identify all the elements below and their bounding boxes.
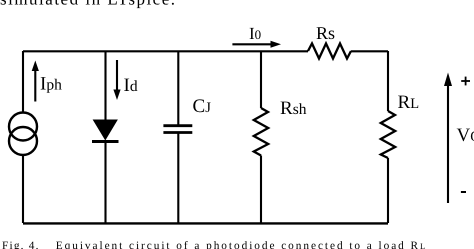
wire: top rail left segment (node A to Rs)	[23, 50, 308, 52]
label Rs	[316, 23, 335, 43]
resistor Rs (horizontal zigzag in top rail)	[308, 44, 351, 59]
label Rsh	[280, 98, 307, 119]
label Iph	[40, 74, 62, 95]
wire: Rsh branch above	[260, 51, 262, 108]
wire: diode branch above	[104, 51, 106, 121]
svg-text:Equivalent circuit of a photod: Equivalent circuit of a photodiode conne…	[56, 240, 427, 249]
svg-text:Id: Id	[124, 75, 138, 96]
label + (positive terminal)	[461, 77, 470, 86]
wire: bottom rail	[23, 222, 388, 224]
arrow: Id current direction (down)	[113, 60, 120, 100]
wire: top rail right segment (Rs to RL corner)	[351, 50, 388, 52]
svg-text:simulated in LTspice.: simulated in LTspice.	[0, 0, 177, 8]
svg-text:I0: I0	[249, 24, 261, 43]
resistor Rsh (vertical zigzag)	[254, 108, 268, 156]
text: paragraph fragment "simulated in LTspice."	[0, 0, 177, 8]
svg-text:RL: RL	[398, 92, 420, 113]
wire: diode branch below	[104, 142, 106, 224]
current source Iph symbol (two overlapping circles)	[9, 113, 37, 156]
arrow: I0 current direction (right, above top rail)	[232, 41, 281, 48]
svg-text:Rs: Rs	[316, 23, 335, 43]
wire: Rsh branch below	[260, 156, 262, 224]
svg-text:VO: VO	[457, 125, 474, 146]
wire: capacitor branch above	[177, 51, 179, 126]
wire: RL branch above	[387, 51, 389, 111]
label CJ	[193, 96, 212, 117]
text: figure caption	[2, 240, 427, 249]
label V0	[457, 125, 474, 146]
arrow: V0 polarity reference (up)	[444, 73, 452, 204]
label Id	[124, 75, 138, 96]
capacitor CJ plates	[163, 126, 192, 133]
diode D (photodiode junction diode)	[92, 120, 119, 142]
svg-text:Rsh: Rsh	[280, 98, 307, 119]
wire: left branch below current source	[22, 155, 24, 223]
svg-text:CJ: CJ	[193, 96, 212, 117]
svg-text:Fig. 4.: Fig. 4.	[2, 240, 40, 249]
arrow: Iph current direction (up)	[32, 61, 39, 102]
label - (negative terminal)	[461, 191, 466, 193]
svg-text:Iph: Iph	[40, 74, 62, 95]
wire: left branch above current source	[22, 51, 24, 113]
resistor RL (vertical zigzag)	[381, 111, 395, 158]
label RL	[398, 92, 420, 113]
wire: RL branch below	[387, 158, 389, 223]
label I0	[249, 24, 261, 43]
wire: capacitor branch below	[177, 133, 179, 224]
